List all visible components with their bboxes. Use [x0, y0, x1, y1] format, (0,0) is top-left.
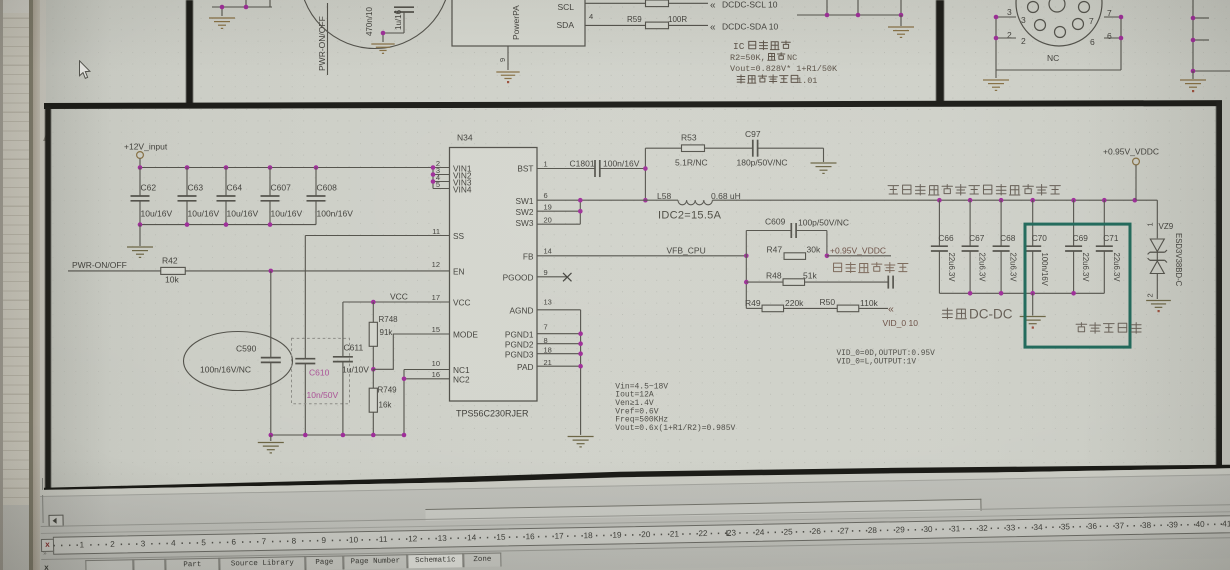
svg-text:10u/16V: 10u/16V [141, 209, 173, 219]
node VCC junction for R748 [371, 300, 376, 305]
svg-text:C610: C610 [309, 368, 330, 378]
connector J_T2 (circular, bottom half) [1016, 0, 1102, 46]
wire far right vertical net [1193, 0, 1230, 71]
svg-text:51k: 51k [803, 271, 817, 281]
svg-text:+0.95V_VDDC: +0.95V_VDDC [830, 246, 886, 256]
annotation near DC-DC (Chinese) [942, 307, 1012, 322]
junction dots output bus [937, 198, 1137, 203]
svg-text:28: 28 [868, 525, 878, 534]
ground bottom-left [258, 435, 284, 453]
svg-text:18: 18 [544, 346, 552, 355]
svg-text:1.01: 1.01 [797, 76, 817, 86]
bottom page border (curved, tilted) + cover below [0, 440, 1230, 520]
svg-text:29: 29 [896, 525, 906, 534]
svg-text:13: 13 [438, 533, 448, 542]
svg-text:MODE: MODE [453, 330, 478, 340]
wire PWR-ON/OFF to R42 [68, 270, 161, 272]
svg-text:«: « [888, 303, 894, 315]
svg-text:16k: 16k [379, 401, 393, 410]
svg-text:1: 1 [544, 159, 548, 168]
resistor R50 110k [820, 297, 889, 312]
junction dots cap ground bus [968, 291, 1076, 296]
svg-text:IDC2=15.5A: IDC2=15.5A [658, 210, 722, 222]
svg-text:C70: C70 [1032, 233, 1048, 243]
svg-text:SW1: SW1 [516, 196, 534, 206]
connector pin holes [1028, 0, 1090, 38]
svg-text:220k: 220k [785, 298, 804, 308]
wire output bus to VZ9 [1156, 200, 1158, 238]
svg-text:22u6.3V: 22u6.3V [1009, 253, 1018, 283]
ground T2 [983, 70, 1009, 90]
svg-text:470n/10: 470n/10 [365, 7, 374, 36]
svg-text:17: 17 [554, 531, 564, 540]
tab row [41, 536, 1230, 570]
svg-text:26: 26 [812, 526, 822, 535]
svg-text:+12V_input: +12V_input [124, 142, 168, 152]
svg-text:33: 33 [1006, 523, 1016, 532]
node R48 junction [744, 280, 749, 285]
svg-text:NC: NC [1047, 53, 1059, 63]
junction dots +12V bus [138, 165, 319, 170]
ground under 470n [371, 44, 394, 53]
ground under C62 [127, 225, 153, 258]
node MODE junction [371, 367, 376, 372]
svg-text:VID_0=0D,OUTPUT:0.95V: VID_0=0D,OUTPUT:0.95V [837, 350, 936, 358]
wire SW2/SW3 stubs [537, 200, 580, 224]
svg-text:4: 4 [589, 12, 593, 21]
ground T1 right [888, 15, 914, 37]
green highlight box (place near main chip) [1025, 224, 1130, 347]
cover right of page right border [1222, 100, 1230, 490]
svg-text:2: 2 [1021, 36, 1026, 46]
svg-text:«: « [710, 22, 716, 33]
svg-text:DCDC-SDA 10: DCDC-SDA 10 [722, 22, 778, 32]
svg-text:C68: C68 [1000, 233, 1016, 243]
ground of snubber [811, 162, 837, 164]
capacitor C66 22u6.3V [931, 200, 956, 293]
svg-text:10n/50V: 10n/50V [307, 390, 339, 400]
svg-text:16: 16 [432, 370, 440, 379]
pin 9 stub and ground under T1 IC [496, 46, 519, 83]
svg-text:DC-DC: DC-DC [969, 307, 1013, 322]
annotation: IC internal divider (Chinese) [730, 41, 838, 86]
left dock panel with rows [0, 0, 30, 570]
wire C1801 to SW node [600, 148, 646, 200]
svg-text:30k: 30k [807, 245, 821, 255]
IC right pin names [503, 164, 534, 372]
svg-text:6: 6 [1107, 31, 1112, 41]
junction dots PGND [578, 331, 583, 368]
ground AGND [568, 436, 594, 438]
capacitor C608 100n/16V [307, 168, 354, 225]
svg-text:VCC: VCC [390, 292, 408, 302]
svg-text:9: 9 [544, 268, 548, 277]
svg-text:PWR-ON/OFF: PWR-ON/OFF [72, 260, 127, 270]
svg-text:100n/16V/NC: 100n/16V/NC [200, 365, 251, 375]
capacitor C71 22u6.3V [1096, 200, 1121, 293]
svg-text:2: 2 [110, 539, 115, 548]
wire R42 to EN pin [185, 270, 450, 272]
svg-text:110k: 110k [860, 298, 879, 308]
node junction dots T1 left [220, 5, 249, 10]
svg-text:38: 38 [1142, 520, 1152, 529]
svg-text:C67: C67 [969, 233, 985, 243]
svg-text:9: 9 [321, 535, 326, 544]
svg-text:15: 15 [432, 325, 440, 334]
node dot 470n [381, 31, 386, 36]
svg-text:SCL: SCL [557, 2, 574, 12]
port DCDC-SDA 10 [710, 22, 778, 34]
svg-text:10: 10 [349, 535, 359, 544]
resistor R59 100R on SDA line [585, 15, 708, 29]
svg-text:11: 11 [432, 227, 440, 236]
svg-text:21: 21 [670, 529, 680, 538]
capacitor C611 1u/10V [333, 343, 369, 375]
svg-text:22u6.3V: 22u6.3V [1112, 253, 1121, 283]
svg-text:R50: R50 [820, 297, 836, 307]
annotation VID truth table [837, 350, 936, 366]
svg-text:14: 14 [467, 533, 477, 542]
annotation near main chip (Chinese) [1076, 323, 1087, 332]
net port +12V_input [124, 142, 168, 168]
capacitor C610 10n/50V (NC, dashed box) [292, 338, 350, 403]
ellipse highlight around C590 [184, 332, 293, 391]
ground T1 left [209, 18, 235, 28]
bottom UI (tilted band) [40, 467, 1230, 570]
svg-text:35: 35 [1061, 522, 1071, 531]
svg-text:36: 36 [1088, 521, 1098, 530]
IC left pin numbers [432, 159, 440, 379]
svg-text:22u6.3V: 22u6.3V [978, 253, 987, 283]
svg-text:39: 39 [1169, 520, 1179, 529]
wire 470n cap to node [383, 12, 404, 42]
wire +12V bottom bus [140, 224, 316, 226]
annotation: keep trace wide (Chinese) [888, 186, 899, 194]
svg-text:C71: C71 [1103, 233, 1119, 243]
svg-text:Vout=0.828V* 1+R1/50K: Vout=0.828V* 1+R1/50K [730, 64, 838, 74]
svg-text:19: 19 [612, 530, 622, 539]
svg-text:TPS56C230RJER: TPS56C230RJER [456, 409, 529, 419]
wire bus T1 right with risers [797, 0, 903, 15]
IC left pin names [453, 163, 478, 384]
svg-text:C66: C66 [938, 233, 954, 243]
svg-text:16: 16 [526, 532, 536, 541]
svg-text:100R: 100R [668, 15, 687, 24]
scrollbar left button [48, 514, 63, 526]
ruler close icon [41, 538, 54, 551]
svg-text:10u/16V: 10u/16V [227, 209, 259, 219]
svg-text:100p/50V/NC: 100p/50V/NC [798, 218, 849, 228]
capacitor C63 10u/16V [178, 168, 220, 225]
svg-text:1u/16: 1u/16 [394, 9, 403, 30]
wire VCC pin down through C611 [343, 302, 450, 435]
ground output caps [1020, 293, 1046, 328]
svg-text:20: 20 [641, 530, 651, 539]
capacitor C67 22u6.3V [962, 200, 987, 293]
svg-text:PGOOD: PGOOD [503, 272, 534, 282]
svg-text:1: 1 [80, 540, 85, 549]
svg-text:PGND3: PGND3 [505, 349, 534, 359]
junction dots BST/SW [643, 166, 648, 202]
op-amp/IC U_T1 PowerPAD block [452, 0, 585, 46]
small scroll arrow on panel [43, 133, 50, 141]
svg-text:100n/16V: 100n/16V [317, 209, 354, 219]
svg-text:3: 3 [1021, 15, 1026, 25]
svg-text:+0.95V_VDDC: +0.95V_VDDC [1103, 147, 1159, 157]
svg-text:C608: C608 [317, 183, 338, 193]
capacitor C68 22u6.3V [993, 200, 1018, 293]
resistor R47 30k [767, 245, 821, 260]
wire L58 to output bus [712, 199, 1157, 201]
wire EN node down through C590 to ground bus [270, 271, 272, 435]
node EN junction [269, 269, 274, 274]
wire VIN pin stubs [433, 168, 450, 189]
svg-text:C1801: C1801 [570, 159, 595, 169]
svg-text:R49: R49 [745, 298, 761, 308]
svg-text:180p/50V/NC: 180p/50V/NC [737, 158, 788, 168]
svg-text:C69: C69 [1073, 233, 1089, 243]
svg-text:12: 12 [408, 534, 418, 543]
svg-text:R2=50K,: R2=50K, [730, 53, 766, 63]
svg-text:22: 22 [698, 528, 708, 537]
svg-text:9: 9 [498, 58, 507, 62]
scroll row [40, 467, 1230, 496]
svg-text:37: 37 [1115, 521, 1125, 530]
svg-text:VCC: VCC [453, 298, 471, 308]
svg-text:20: 20 [544, 215, 552, 224]
capacitor C69 22u6.3V [1065, 200, 1090, 293]
svg-text:4: 4 [171, 538, 176, 547]
junction dots ground bus [269, 433, 407, 438]
svg-text:22u6.3V: 22u6.3V [947, 253, 956, 283]
mouse cursor [77, 60, 92, 82]
capacitor C590 100n/16V/NC [200, 344, 281, 375]
svg-text:R47: R47 [767, 245, 783, 255]
svg-text:SW2: SW2 [516, 207, 534, 217]
resistor R53 5.1R/NC [645, 133, 752, 168]
capacitor 1u/16 (plates) [394, 7, 414, 30]
black page borders [186, 0, 193, 106]
svg-text:40: 40 [1195, 519, 1205, 528]
svg-text:25: 25 [783, 527, 793, 536]
capacitor C1801 100n/16V [570, 159, 640, 178]
resistor R48 51k [746, 271, 888, 286]
svg-text:VID_0=L,OUTPUT:1V: VID_0=L,OUTPUT:1V [837, 358, 917, 366]
pin number labels T2 [1007, 7, 1112, 41]
node NC2 junction [402, 377, 407, 382]
svg-text:15: 15 [496, 532, 506, 541]
svg-text:32: 32 [979, 523, 989, 532]
svg-text:NC: NC [787, 53, 797, 63]
svg-text:7: 7 [262, 537, 267, 546]
svg-text:0.68 uH: 0.68 uH [711, 191, 741, 201]
svg-text:C590: C590 [236, 344, 257, 354]
junction dots far right [1191, 16, 1196, 74]
svg-text:N34: N34 [457, 133, 473, 143]
wire output cap ground bus [939, 292, 1104, 294]
svg-text:5: 5 [201, 538, 206, 547]
svg-text:EN: EN [453, 266, 465, 276]
large circle outline (component bubble) [300, 0, 451, 49]
svg-text:FB: FB [523, 251, 534, 261]
resistor R49 220k [745, 298, 837, 312]
svg-text:C609: C609 [765, 217, 786, 227]
wire C97 to ground [758, 148, 824, 162]
svg-text:100n/16V: 100n/16V [1040, 253, 1049, 287]
resistor R42 10k [161, 256, 186, 285]
wire SW1 rail [537, 199, 678, 201]
svg-text:22u6.3V: 22u6.3V [1081, 253, 1090, 283]
net label PWR-ON/OFF (vertical) [317, 3, 328, 75]
svg-text:NC2: NC2 [453, 375, 470, 385]
svg-text:DCDC-SCL 10: DCDC-SCL 10 [722, 0, 778, 10]
capacitor C62 10u/16V [131, 168, 173, 225]
svg-text:6: 6 [231, 537, 236, 546]
svg-text:21: 21 [544, 358, 552, 367]
svg-text:C64: C64 [227, 183, 243, 193]
resistor R749 16k [369, 369, 397, 435]
svg-text:41: 41 [1222, 519, 1230, 528]
svg-text:SW3: SW3 [516, 218, 534, 228]
svg-text:100n/16V: 100n/16V [603, 159, 640, 169]
svg-text:R749: R749 [378, 386, 398, 395]
svg-text:VIN4: VIN4 [453, 185, 472, 195]
junction dots T1 right [825, 13, 904, 18]
svg-text:1u/10V: 1u/10V [342, 365, 369, 375]
svg-text:VZ9: VZ9 [1159, 222, 1174, 231]
pin PGOOD no-connect X [537, 273, 572, 281]
wire SS pin run down through C610 [305, 236, 449, 436]
svg-text:PowerPA: PowerPA [511, 5, 521, 40]
svg-text:10u/16V: 10u/16V [188, 209, 220, 219]
svg-text:3: 3 [1007, 7, 1012, 17]
wire BST pin to C1801 [537, 168, 595, 170]
svg-text:7: 7 [1089, 16, 1094, 26]
wire FB vertical [745, 231, 747, 309]
pale margin strip left of pages [40, 0, 46, 497]
IC right pin numbers [544, 159, 552, 367]
svg-text:10: 10 [432, 359, 440, 368]
ruler strip [41, 510, 1230, 534]
svg-text:PGND2: PGND2 [505, 339, 534, 349]
ground far right [1180, 71, 1206, 92]
svg-text:24: 24 [755, 527, 765, 536]
svg-text:C97: C97 [745, 129, 761, 139]
node FB junction [744, 254, 749, 259]
svg-text:C611: C611 [344, 343, 364, 353]
svg-text:7: 7 [544, 323, 548, 332]
junction dots SW [578, 198, 583, 214]
capacitor C97 180p/50V/NC [737, 129, 788, 168]
panel divider strip [29, 0, 33, 570]
inductor L58 0.68 uH [657, 191, 741, 205]
svg-text:R42: R42 [162, 256, 178, 266]
wire top-left net on page T1 [212, 0, 272, 16]
ground VZ9 [1146, 300, 1171, 302]
svg-text:R48: R48 [766, 271, 782, 281]
wire ground bus bottom-left [271, 434, 404, 436]
svg-text:R748: R748 [379, 315, 399, 324]
svg-text:2: 2 [1146, 293, 1155, 297]
svg-text:SDA: SDA [557, 20, 575, 30]
wire NC1/NC2 pins [404, 370, 450, 436]
svg-text:10u/16V: 10u/16V [271, 209, 303, 219]
wire AGND/PGND/PAD to ground [537, 310, 581, 435]
diode VZ9 ESD3V38BD-C [1146, 222, 1184, 299]
svg-text:L58: L58 [657, 191, 671, 201]
svg-text:19: 19 [544, 203, 552, 212]
svg-text:PWR-ON/OFF: PWR-ON/OFF [317, 16, 327, 71]
wire MODE pin [373, 334, 449, 369]
capacitor C70 100n/16V [1024, 200, 1049, 293]
capacitor C609 100p/50V/NC [746, 217, 849, 256]
svg-text:10k: 10k [165, 275, 179, 285]
svg-text:30: 30 [923, 524, 933, 533]
connector pin name labels [1021, 15, 1095, 63]
wire to +0.95V_VDDC stub [827, 255, 891, 257]
svg-text:6: 6 [1090, 37, 1095, 47]
wire T2 left pins to ground rail [996, 17, 1121, 70]
svg-text:BST: BST [517, 164, 533, 174]
junction dots bottom bus [138, 222, 273, 227]
svg-text:C63: C63 [188, 183, 204, 193]
wire +12V top bus [140, 167, 433, 169]
svg-text:IC: IC [733, 41, 745, 52]
svg-text:VFB_CPU: VFB_CPU [667, 246, 706, 256]
svg-text:PGND1: PGND1 [505, 329, 534, 339]
svg-text:R59: R59 [627, 15, 642, 24]
svg-text:8: 8 [292, 536, 297, 545]
net port +0.95V_VDDC [1103, 147, 1159, 201]
port DCDC-SCL 10 [710, 0, 778, 11]
svg-text:C62: C62 [141, 183, 157, 193]
capacitor stub at R48 end [887, 276, 889, 289]
annotation connect to chip root (Chinese) [834, 263, 842, 272]
svg-text:27: 27 [840, 526, 850, 535]
resistor R748 91k [369, 302, 398, 369]
svg-text:3: 3 [141, 539, 146, 548]
svg-text:AGND: AGND [510, 305, 534, 315]
IC U N34 TPS56C230RJER [450, 133, 538, 419]
junction dots T2 [994, 15, 1124, 41]
svg-text:PAD: PAD [517, 362, 533, 372]
svg-text:VID_0 10: VID_0 10 [883, 318, 919, 328]
svg-text:17: 17 [432, 293, 440, 302]
junction dots VIN [431, 165, 436, 184]
svg-text:11: 11 [379, 534, 388, 543]
svg-text:5.1R/NC: 5.1R/NC [675, 158, 708, 168]
capacitor 470n/10 label (vertical) [365, 7, 374, 36]
wire FB pin [537, 255, 746, 257]
annotation converter parameters [615, 382, 735, 433]
svg-text:Vout=0.6x(1+R1/R2)=0.985V: Vout=0.6x(1+R1/R2)=0.985V [615, 424, 735, 433]
svg-text:14: 14 [544, 247, 552, 256]
svg-text:«: « [710, 0, 716, 11]
port VID_0 10 [883, 303, 919, 328]
node R47/C609 junction [825, 254, 830, 259]
page-edge vertical line bottom-left [42, 478, 43, 497]
svg-text:34: 34 [1033, 522, 1043, 531]
svg-text:18: 18 [583, 531, 593, 540]
scrollbar thumb [425, 498, 981, 520]
svg-text:1: 1 [1146, 222, 1155, 226]
svg-text:13: 13 [544, 297, 552, 306]
svg-text:R53: R53 [681, 133, 697, 143]
svg-text:12: 12 [432, 260, 440, 269]
capacitor C607 10u/16V [261, 168, 303, 225]
svg-text:SS: SS [453, 231, 465, 241]
svg-text:91k: 91k [380, 328, 394, 337]
